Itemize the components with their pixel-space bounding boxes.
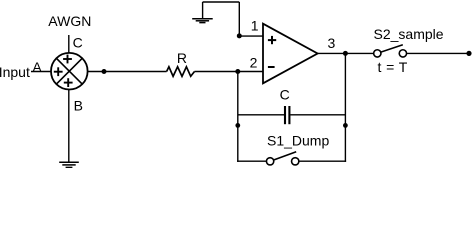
- svg-text:S2_sample: S2_sample: [374, 26, 444, 42]
- junction node after adder: [102, 69, 107, 74]
- switch S2_sample: [374, 45, 407, 57]
- wire to capacitor left plate: [238, 114, 284, 116]
- resistor R: [167, 67, 195, 77]
- svg-text:Input: Input: [0, 64, 30, 80]
- feedback right vertical wire: [344, 53, 346, 161]
- svg-text:B: B: [74, 98, 83, 114]
- wire S1 to bottom right: [299, 160, 346, 162]
- svg-text:A: A: [32, 59, 42, 75]
- svg-text:C: C: [73, 35, 83, 51]
- wire input A to adder: [31, 71, 52, 73]
- wire ground to non-inverting input: top horizontal: [203, 1, 240, 3]
- wire from capacitor right plate: [290, 114, 345, 116]
- feedback left vertical wire: [237, 72, 239, 162]
- junction node at pin 3: [343, 51, 348, 56]
- capacitor C: [285, 106, 289, 124]
- wire resistor to op-amp inverting input: [195, 71, 264, 73]
- adder (summing junction): [51, 53, 88, 90]
- ground (bottom left): [59, 162, 79, 167]
- op-amp U1: [263, 24, 318, 84]
- svg-text:1: 1: [251, 18, 259, 34]
- svg-text:R: R: [177, 50, 187, 66]
- junction node left feedback: [235, 123, 240, 128]
- junction node right feedback: [343, 123, 348, 128]
- wire bottom left to S1: [237, 160, 266, 162]
- wire S2 to output terminal: [407, 52, 469, 54]
- svg-text:t = T: t = T: [378, 59, 408, 75]
- svg-text:3: 3: [328, 35, 336, 51]
- wire adder bottom to ground: [68, 89, 70, 161]
- ground (top, at op-amp + input): [192, 19, 213, 23]
- svg-text:AWGN: AWGN: [48, 13, 91, 29]
- wire into pin 1: [239, 35, 263, 37]
- switch S1_Dump: [266, 152, 298, 165]
- svg-text:2: 2: [250, 54, 258, 70]
- wire AWGN stub into adder top: [68, 35, 70, 53]
- wire ground stub: [202, 2, 204, 18]
- wire down to pin 1: [238, 2, 240, 36]
- svg-text:S1_Dump: S1_Dump: [267, 133, 329, 149]
- svg-text:C: C: [280, 87, 290, 103]
- wire adder output to resistor: [88, 71, 167, 73]
- junction node at pin 1: [237, 33, 242, 38]
- wire op-amp output to S2: [318, 52, 374, 54]
- junction node at pin 2: [235, 69, 240, 74]
- output terminal node: [466, 51, 471, 56]
